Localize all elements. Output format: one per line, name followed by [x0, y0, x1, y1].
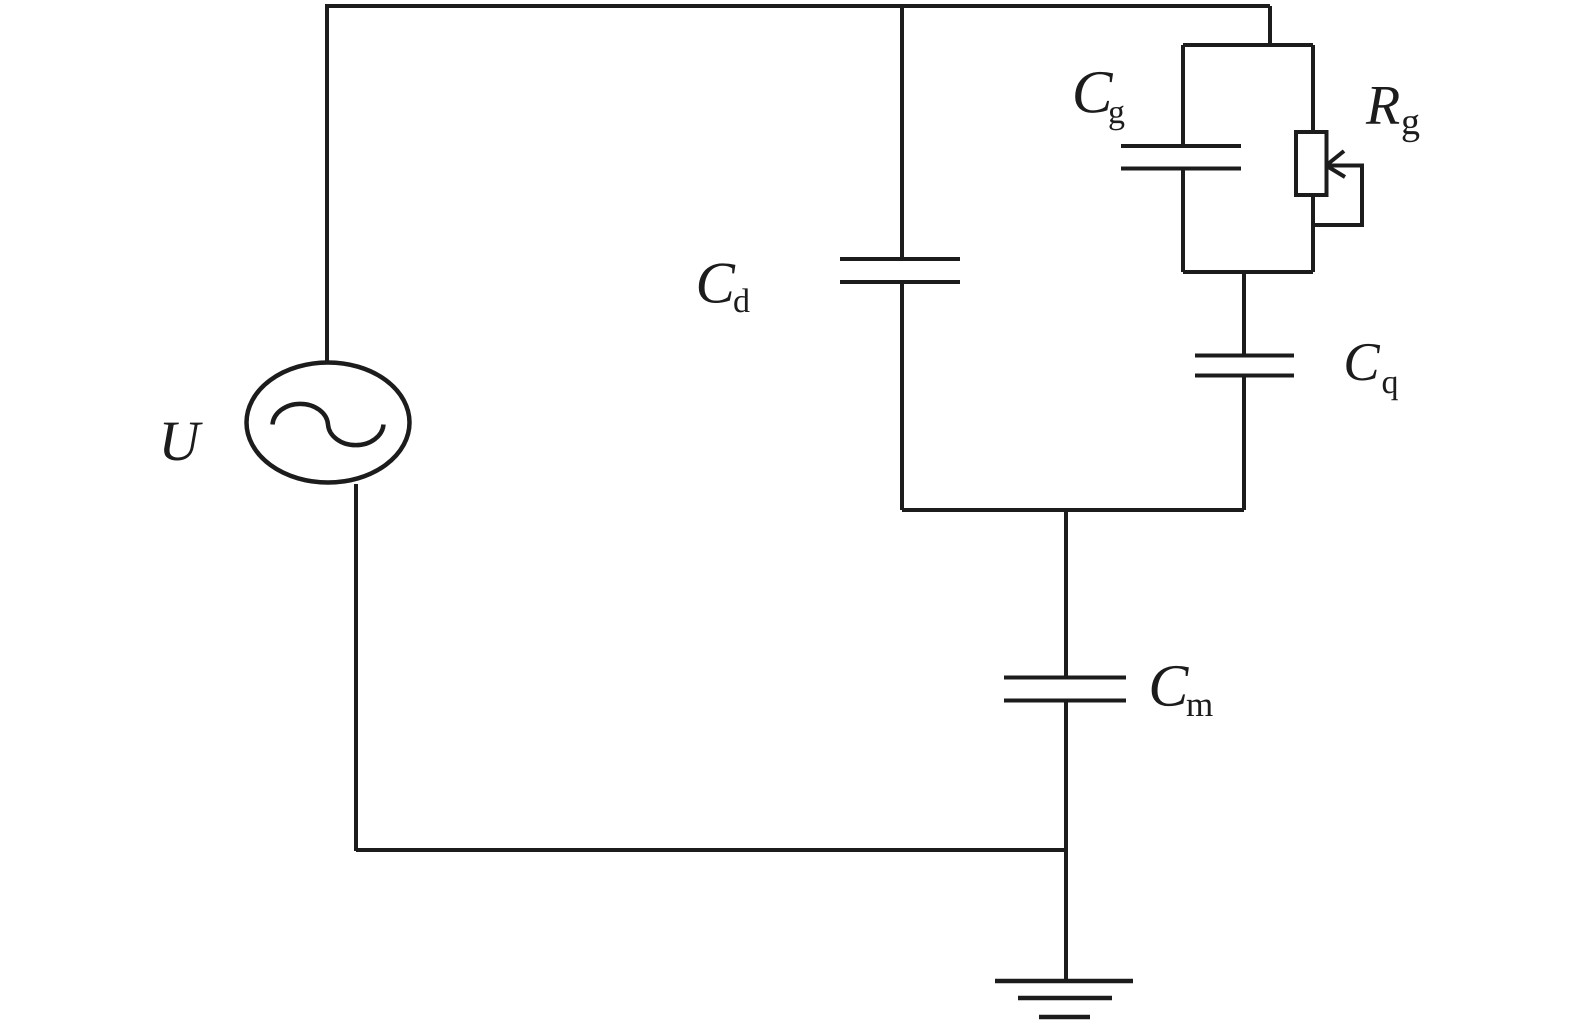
label Cd [699, 263, 750, 312]
label Cq [1346, 344, 1398, 400]
wire Cq to mid rail [1242, 376, 1246, 511]
wire bottom horizontal (source to ground node) [356, 848, 1066, 852]
resistor Rg (adjustable) body [1296, 132, 1327, 195]
wire Cm lower (to ground) [1064, 701, 1068, 982]
label U [164, 423, 203, 461]
wire mid horizontal (Cd/Cq junction rail) [902, 508, 1244, 512]
wire box top edge [1183, 43, 1313, 47]
label Cg [1075, 72, 1124, 130]
AC source U (ellipse) [247, 363, 410, 483]
wire box bottom edge [1183, 270, 1313, 274]
wire left vertical (top rail to source) [325, 6, 329, 362]
ground [995, 981, 1133, 1017]
wire box right branch lower [1311, 195, 1315, 272]
wire right drop (top rail into box) [1268, 6, 1272, 45]
label Cm [1152, 666, 1213, 716]
capacitor Cd plates [840, 259, 960, 282]
wire top rail [325, 4, 1270, 8]
resistor Rg wiper arrow and tap wire [1313, 151, 1362, 225]
wire box left branch upper [1181, 45, 1185, 146]
wire Cd lower stub [900, 282, 904, 510]
wire source bottom vertical [354, 484, 358, 851]
capacitor Cm plates [1004, 678, 1126, 701]
AC source sine wave [273, 404, 384, 445]
wire Cm upper [1064, 510, 1068, 678]
capacitor Cq plates [1195, 356, 1294, 376]
capacitor Cg plates [1121, 146, 1241, 169]
wire box left branch lower [1181, 169, 1185, 273]
label Rg [1366, 87, 1420, 142]
wire Cd upper stub [900, 6, 904, 259]
wire box right branch upper [1311, 45, 1315, 132]
wire box to Cq [1242, 272, 1246, 356]
